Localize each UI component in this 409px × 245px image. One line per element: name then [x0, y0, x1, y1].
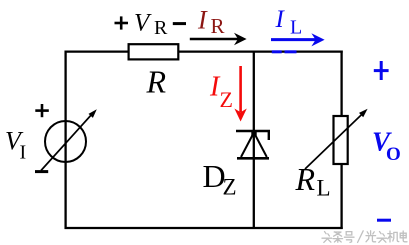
- char hao: [344, 232, 354, 243]
- char ji: [388, 231, 399, 242]
- node blue marks on top wire: [272, 50, 297, 53]
- svg-text:Z: Z: [223, 175, 237, 200]
- wire middle branch: [253, 51, 255, 229]
- output minus sign: [377, 219, 391, 222]
- label I_R: [197, 6, 225, 39]
- resistor R_L box: [334, 116, 348, 164]
- label plus of V_R: [115, 16, 129, 29]
- label V_O: [372, 127, 401, 166]
- label V_R: [134, 10, 168, 40]
- char tou1: [322, 232, 332, 243]
- svg-text:I: I: [20, 142, 27, 164]
- svg-text:R: R: [154, 17, 168, 39]
- label D_Z: [203, 158, 237, 200]
- watermark "toutiao / guangtou jidian": [322, 231, 407, 243]
- svg-text:Z: Z: [220, 87, 233, 112]
- current arrow I_Z: [234, 66, 246, 122]
- char guang: [366, 231, 376, 242]
- source minus sign: [35, 170, 48, 173]
- label I_L: [275, 6, 303, 39]
- wire top: [65, 50, 343, 52]
- slash: [358, 231, 364, 243]
- wire right: [340, 51, 342, 230]
- label I_Z: [209, 72, 233, 113]
- char tou2: [377, 232, 387, 243]
- svg-text:V: V: [134, 10, 152, 37]
- label V_I: [5, 127, 26, 164]
- source V_I variability arrow: [41, 109, 97, 170]
- label R_L: [295, 161, 331, 201]
- svg-text:L: L: [290, 17, 302, 39]
- svg-text:O: O: [386, 144, 401, 165]
- source plus sign: [35, 104, 49, 117]
- resistor R value label: [146, 64, 167, 100]
- svg-text:I: I: [275, 6, 286, 33]
- output plus sign: [374, 61, 389, 80]
- zener diode D_Z anode triangle: [237, 131, 269, 159]
- current arrow I_L: [271, 33, 325, 46]
- char tiao: [333, 232, 343, 242]
- svg-text:I: I: [197, 6, 208, 35]
- source V_I circle: [45, 121, 86, 162]
- resistor R_L variability arrow: [305, 109, 368, 169]
- resistor R: [129, 44, 179, 59]
- wire left: [64, 51, 66, 230]
- svg-text:R: R: [211, 14, 225, 38]
- svg-text:R: R: [295, 161, 316, 197]
- wire bottom: [65, 227, 343, 229]
- char dian: [400, 231, 407, 242]
- label minus of V_R: [173, 22, 186, 25]
- current arrow I_R: [190, 33, 247, 45]
- svg-text:R: R: [146, 64, 167, 100]
- svg-text:L: L: [317, 176, 331, 201]
- zener diode D_Z cathode bar: [236, 130, 270, 140]
